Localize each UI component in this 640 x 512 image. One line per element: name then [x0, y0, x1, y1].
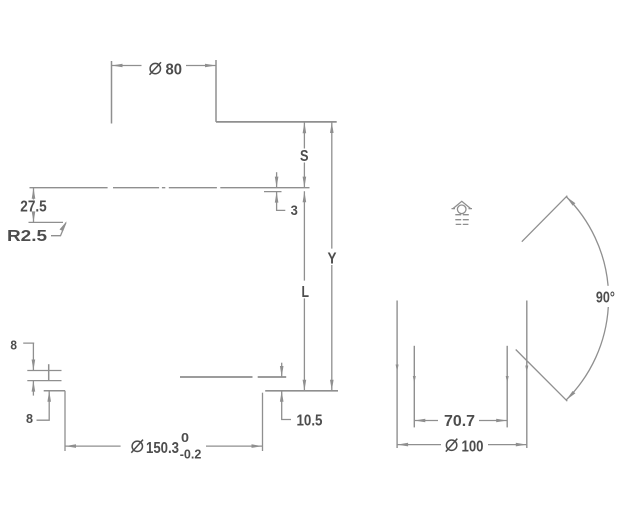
svg-text:8: 8 — [26, 412, 33, 426]
svg-text:70.7: 70.7 — [444, 413, 475, 430]
svg-text:27.5: 27.5 — [20, 199, 47, 216]
svg-text:80: 80 — [166, 61, 183, 78]
svg-text:0: 0 — [181, 430, 189, 445]
svg-text:90°: 90° — [596, 289, 615, 306]
svg-text:S: S — [300, 148, 309, 165]
svg-text:100: 100 — [462, 439, 484, 456]
svg-text:Y: Y — [328, 250, 338, 267]
svg-text:150.3: 150.3 — [146, 440, 179, 457]
svg-text:L: L — [302, 284, 310, 301]
svg-text:R2.5: R2.5 — [7, 228, 48, 245]
svg-text:3: 3 — [291, 203, 299, 218]
svg-text:-0.2: -0.2 — [180, 447, 202, 462]
svg-text:10.5: 10.5 — [297, 412, 323, 429]
svg-text:8: 8 — [10, 338, 17, 352]
